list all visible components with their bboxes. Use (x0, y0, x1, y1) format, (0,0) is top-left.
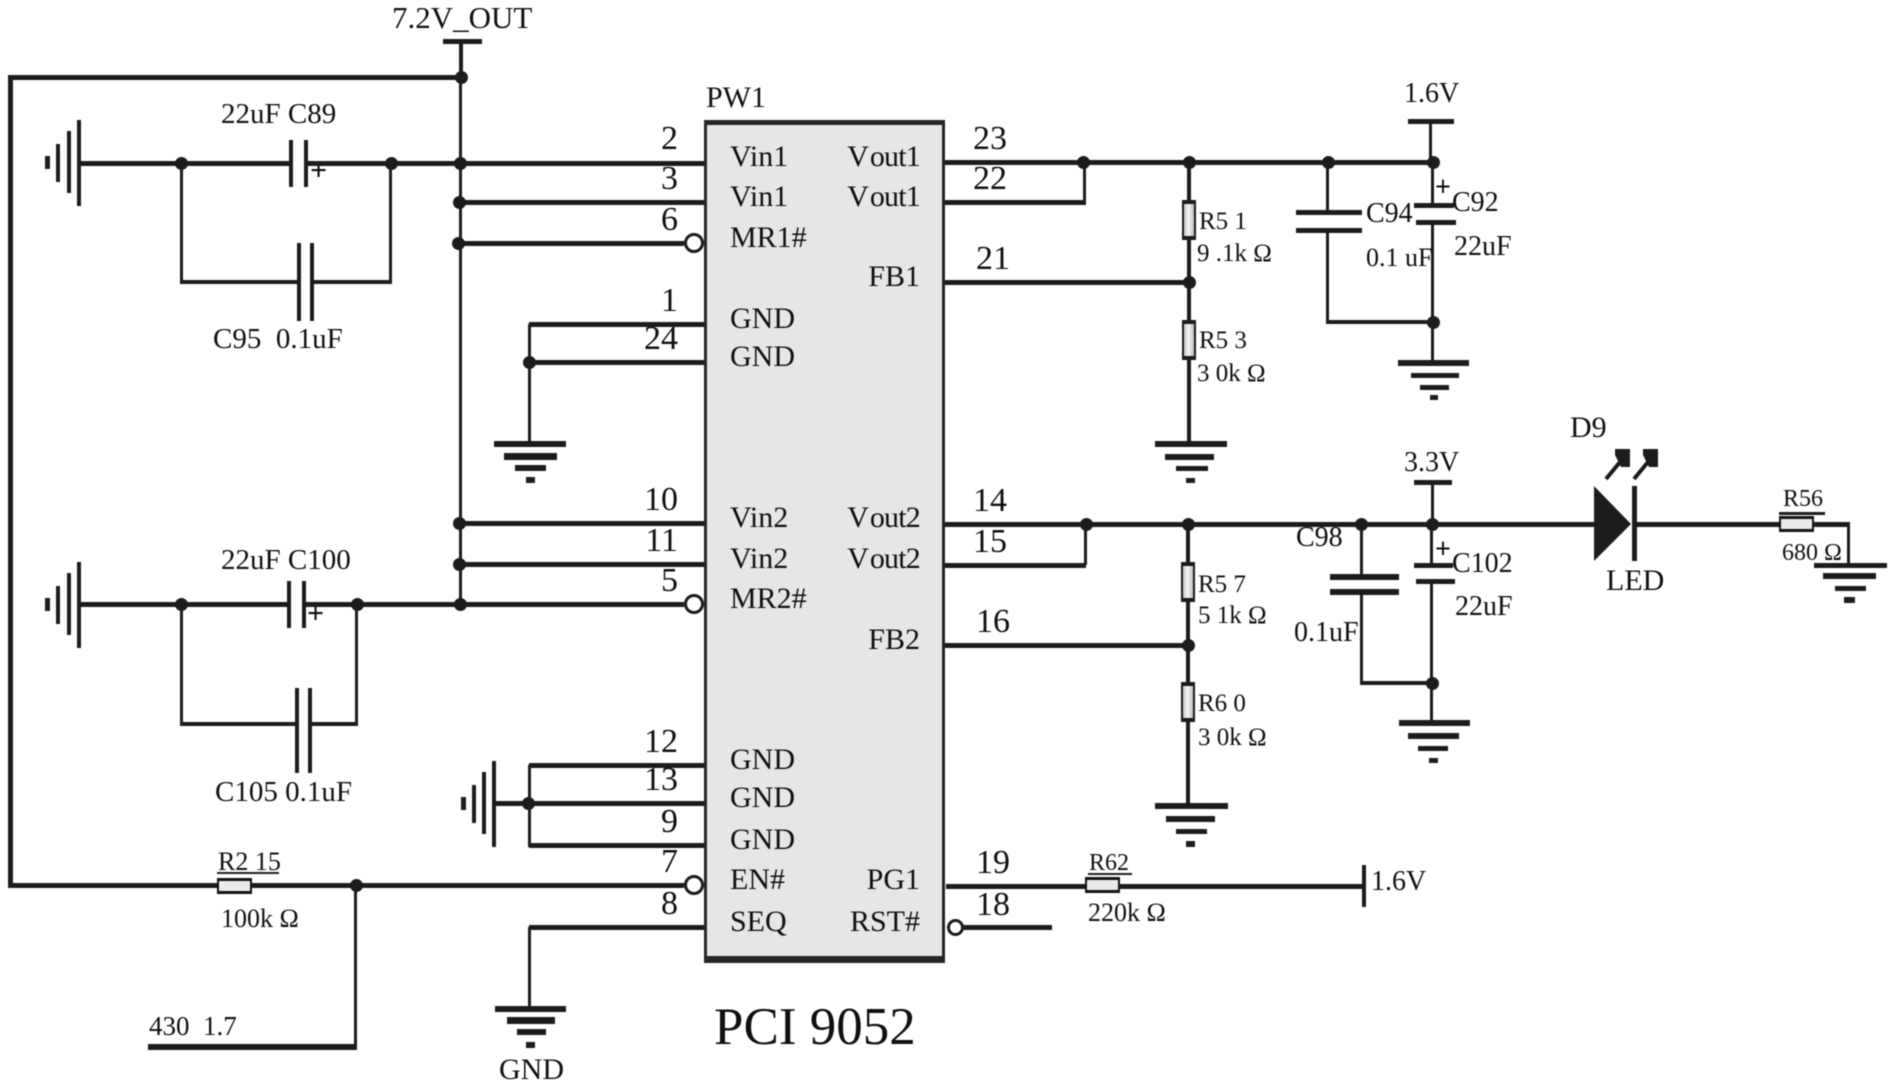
pin label Vin1 a (730, 142, 788, 172)
label C94 (1366, 200, 1413, 228)
junction pin5 bus (454, 598, 467, 611)
value R53 (1197, 361, 1266, 386)
wire pin 12 (529, 763, 704, 768)
pin number 22 (973, 162, 1007, 196)
underline R62 (1088, 873, 1132, 875)
resistor R51 (1182, 200, 1196, 240)
label R51 (1199, 209, 1247, 234)
capacitor C100 (287, 581, 307, 628)
wire C102 top leg (1430, 525, 1433, 563)
wire pin 1 (529, 322, 704, 327)
value C98 (1294, 619, 1359, 647)
wire pin 3 (460, 200, 704, 205)
label R60 (1198, 691, 1246, 716)
label R215 (218, 849, 281, 875)
label D9 (1570, 413, 1607, 443)
value R57 (1198, 603, 1267, 628)
capacitor C89 (289, 140, 309, 187)
value C102 (1455, 593, 1513, 621)
junction rail2 b (1182, 518, 1195, 531)
value R62 (1088, 900, 1166, 926)
pin label Vout1 b (847, 182, 920, 212)
pin number 2 (620, 122, 678, 156)
wire pin 15 (945, 563, 1086, 568)
ground (left of C89) (45, 120, 85, 206)
terminal 1.6V right (1362, 865, 1366, 907)
wire pin 24 (529, 360, 704, 365)
pin label MR2# (730, 584, 807, 614)
junction C100 left (175, 598, 188, 611)
label C98 (1296, 524, 1343, 552)
value C94 (1366, 245, 1432, 271)
resistor R62 (1085, 877, 1120, 893)
pin number 1 (620, 284, 678, 318)
label R53 (1199, 328, 1247, 353)
wire C95 left (180, 280, 297, 284)
junction C100 right (351, 598, 364, 611)
junction pin13 (522, 797, 535, 810)
pin number 13 (620, 763, 678, 797)
wire left frame vertical (8, 75, 13, 888)
pin number 12 (620, 725, 678, 759)
wire C105 left leg (180, 604, 183, 726)
wire PG1 (946, 884, 1086, 889)
ground (C102) (1399, 720, 1470, 763)
wire 7.2V vertical bus (459, 77, 462, 606)
pin number 18 (976, 888, 1010, 922)
wire C92 bottom leg (1431, 225, 1434, 360)
pin label GND 1 (730, 304, 795, 334)
pin number 24 (620, 322, 678, 356)
label 1.6V right (1371, 868, 1426, 896)
wire 1.6V stem (1429, 124, 1432, 162)
pin label Vin2 b (730, 544, 788, 574)
wire pin22 riser (1083, 163, 1086, 203)
junction rail1 b (1183, 156, 1196, 169)
pin label RST# (850, 907, 920, 937)
junction C89 left (175, 157, 188, 170)
wire pin 22 (945, 200, 1086, 205)
wire C95 right leg (389, 163, 392, 283)
pin number 15 (973, 525, 1007, 559)
wire C95 left leg (180, 163, 183, 283)
junction pin3 (453, 196, 466, 209)
wire pin 8 (529, 925, 704, 930)
plus sign C100 (307, 599, 324, 629)
plus sign C102 (1435, 536, 1451, 564)
pin label GND 24 (730, 342, 795, 372)
junction rail1 c (1322, 156, 1335, 169)
wire C98 to C102 (1360, 681, 1432, 685)
junction rail1 a (1077, 156, 1090, 169)
pin number 3 (620, 162, 678, 196)
label R56 (1783, 487, 1823, 511)
resistor R215 (217, 878, 252, 894)
wire C95 right (313, 280, 392, 284)
wire C98 bottom leg (1360, 595, 1363, 685)
label C92 (1452, 189, 1499, 217)
capacitor C92 (1414, 203, 1456, 225)
label C95 (213, 325, 343, 354)
node 7.2V_OUT label (392, 2, 532, 33)
op-amp U1 : IC PW1 box (704, 120, 945, 963)
ground (SEQ) (495, 1006, 566, 1048)
capacitor C94 (1296, 210, 1362, 233)
pin circle RST# (947, 919, 964, 936)
junction C92 bottom (1427, 316, 1440, 329)
capacitor C102 (1414, 563, 1456, 584)
wire R51 top leg (1187, 163, 1191, 201)
wire FB1 (945, 280, 1190, 285)
wire R60 bottom leg (1186, 722, 1190, 803)
capacitor C98 (1330, 574, 1399, 595)
pin circle EN# (684, 875, 704, 895)
net label 430 1.7 (149, 1013, 237, 1040)
title PCI 9052 (714, 1001, 916, 1054)
label R62 (1089, 851, 1129, 875)
pin number 10 (620, 483, 678, 517)
underline R215 (217, 872, 279, 874)
wire C94 to C92 (1326, 320, 1433, 324)
wire pin 10 (460, 521, 704, 526)
junction rail1 d (1427, 156, 1440, 169)
wire R62 to 1.6V (1119, 884, 1362, 889)
wire R57-R60 leg (1186, 602, 1190, 684)
pin label GND 9 (730, 825, 795, 855)
pin number 7 (620, 845, 678, 879)
wire R56 down leg (1847, 524, 1850, 563)
pin label GND 13 (730, 783, 795, 813)
pin label Vout2 a (847, 503, 920, 533)
pin label FB2 (868, 625, 920, 655)
pin number 14 (973, 484, 1007, 518)
value C92 (1454, 233, 1512, 261)
label LED (1606, 566, 1664, 596)
pin number 23 (973, 122, 1007, 156)
wire R51-R53 leg (1187, 240, 1191, 322)
pin label Vout2 b (847, 544, 920, 574)
label R57 (1198, 572, 1246, 597)
wire LED to R56 (1637, 522, 1780, 527)
wire R57 top leg (1186, 525, 1190, 563)
wire R215 to EN# (251, 883, 684, 888)
wire EN row left (8, 883, 217, 888)
wire gnd leg pins1-24 (528, 324, 531, 442)
pin label SEQ (730, 907, 787, 937)
value R60 (1198, 725, 1267, 750)
wire Vout2 rail (945, 522, 1594, 527)
pin label PG1 (867, 865, 920, 895)
ground (C92) (1398, 360, 1469, 400)
wire C98 top leg (1360, 525, 1363, 574)
wire stem 7.2V_OUT (459, 43, 463, 77)
pin number 11 (620, 524, 678, 558)
terminal 3.3V (1414, 480, 1452, 485)
wire C105 right leg (355, 604, 358, 726)
underline R56 (1779, 512, 1825, 515)
plus sign C89 (310, 156, 327, 186)
capacitor C95 (297, 243, 314, 321)
ground (pins 1,24) (494, 441, 566, 483)
wire pin 13 (496, 801, 704, 806)
pin label GND 12 (730, 745, 795, 775)
pin number 5 (620, 564, 678, 598)
label C102 (1452, 550, 1513, 578)
label C89 (221, 100, 336, 129)
junction pin11 (453, 558, 466, 571)
wire C100 to pin 5 (305, 602, 684, 607)
label 1.6V top (1404, 80, 1459, 108)
label C105 (215, 778, 352, 807)
ground (pins 12,13,9) (461, 761, 497, 847)
junction C102 bottom (1426, 677, 1439, 690)
terminal bar 7.2V_OUT (443, 39, 482, 44)
ground (R53) (1155, 441, 1227, 483)
wire 3.3V stem (1431, 485, 1434, 522)
resistor R53 (1182, 320, 1196, 360)
pin label MR1# (730, 223, 807, 253)
junction rail2 d (1426, 518, 1439, 531)
wire C105 left (180, 722, 295, 726)
value R56 (1782, 541, 1842, 565)
wire RST# (963, 925, 1052, 930)
value R215 (221, 906, 299, 932)
junction pin6 (452, 237, 465, 250)
wire C102 bottom leg (1430, 584, 1433, 720)
pin label EN# (730, 865, 785, 895)
wire FB2 (945, 643, 1190, 648)
pin label Vin1 b (730, 182, 788, 212)
wire pin 9 (529, 843, 704, 848)
wire C89 to pin 2 (307, 161, 704, 166)
pin number 19 (976, 846, 1010, 880)
wire R53 bottom leg (1187, 360, 1191, 441)
wire net 430 vertical (354, 885, 357, 1050)
wire gnd leg pins 12-9 (528, 765, 531, 847)
junction rail2 c (1355, 518, 1368, 531)
wire Vout1 rail (945, 160, 1433, 165)
plus sign C92 (1435, 174, 1451, 202)
pin label Vout1 a (847, 142, 920, 172)
label 3.3V (1404, 449, 1459, 477)
wire C92 top leg (1431, 163, 1434, 203)
capacitor C105 (295, 688, 312, 773)
pin number 9 (620, 805, 678, 839)
wire net 430 bar (148, 1044, 357, 1050)
wire gnd leg pin8 (528, 927, 531, 1007)
ground (left of C100) (45, 562, 85, 648)
wire R56 right (1814, 522, 1850, 527)
pin number 8 (620, 887, 678, 921)
junction FB1 (1183, 276, 1196, 289)
wire pin 11 (460, 562, 704, 567)
ground (R56) (1814, 563, 1887, 603)
junction rail2 a (1080, 518, 1093, 531)
wire ground to C89 (81, 161, 289, 166)
junction pin24 (523, 356, 536, 369)
wire ground to C100 (81, 602, 287, 607)
wire C94 bottom leg (1326, 233, 1329, 324)
junction pin2 bus (454, 157, 467, 170)
junction pin10 (453, 517, 466, 530)
junction FB2 (1182, 639, 1195, 652)
pin circle MR2# (684, 594, 704, 614)
label GND (499, 1055, 564, 1085)
wire C105 right (312, 722, 358, 726)
pin number 6 (620, 203, 678, 237)
value R51 (1197, 241, 1272, 266)
label PW1 (706, 83, 766, 113)
wire pin15 riser (1084, 525, 1087, 565)
pin number 21 (976, 242, 1010, 276)
pin circle MR1# (684, 233, 704, 253)
resistor R57 (1181, 562, 1195, 602)
wire C94 top leg (1326, 163, 1329, 210)
pin label FB1 (868, 262, 920, 292)
LED D9 (1560, 440, 1720, 570)
pin label Vin2 a (730, 503, 788, 533)
wire top rail (8, 75, 463, 80)
ground (R60) (1155, 803, 1228, 847)
label C100 (221, 546, 351, 575)
junction R215 net (350, 879, 363, 892)
wire pin 6 (458, 241, 684, 246)
terminal 1.6V top (1408, 119, 1454, 124)
junction C89 right (385, 157, 398, 170)
pin number 16 (976, 605, 1010, 639)
resistor R56 (1779, 516, 1814, 532)
junction top (455, 71, 468, 84)
resistor R60 (1181, 682, 1195, 722)
